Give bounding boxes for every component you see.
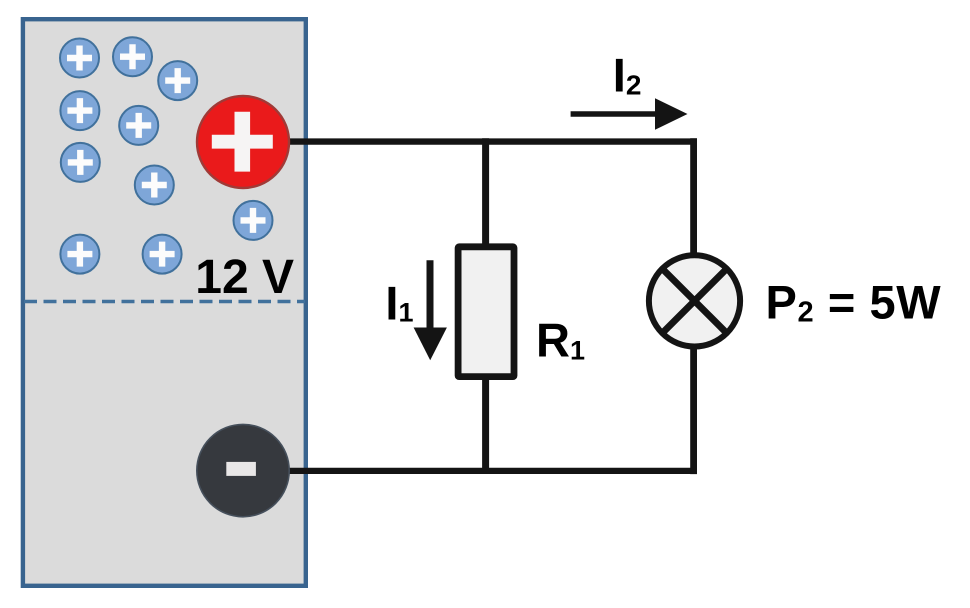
positive terminal <box>197 96 289 188</box>
battery body <box>23 19 306 586</box>
positive charge q9 <box>60 235 99 274</box>
wire R1 branch <box>482 138 489 474</box>
svg-text:12 V: 12 V <box>195 251 294 304</box>
negative terminal <box>197 424 289 516</box>
wire lamp branch <box>690 138 697 474</box>
positive charge q5 <box>119 106 158 145</box>
positive charge q1 <box>60 39 99 78</box>
current arrow I1 <box>414 260 447 360</box>
lamp P2 <box>649 255 740 346</box>
svg-text:I2: I2 <box>613 49 642 102</box>
positive charge q2 <box>113 37 152 76</box>
positive charge q6 <box>61 143 100 182</box>
positive charge q10 <box>143 235 182 274</box>
wire bottom <box>262 468 697 474</box>
positive charge q4 <box>60 91 99 130</box>
svg-text:I1: I1 <box>385 276 413 329</box>
positive charge q8 <box>234 201 273 240</box>
positive charge q7 <box>135 166 174 205</box>
svg-text:P2 = 5W: P2 = 5W <box>766 276 942 329</box>
battery separator dashed line <box>24 300 305 304</box>
positive charge q3 <box>158 61 197 100</box>
svg-text:R1: R1 <box>536 313 585 366</box>
resistor R1 <box>458 247 514 377</box>
wire top <box>262 138 697 144</box>
current arrow I2 <box>571 98 688 130</box>
